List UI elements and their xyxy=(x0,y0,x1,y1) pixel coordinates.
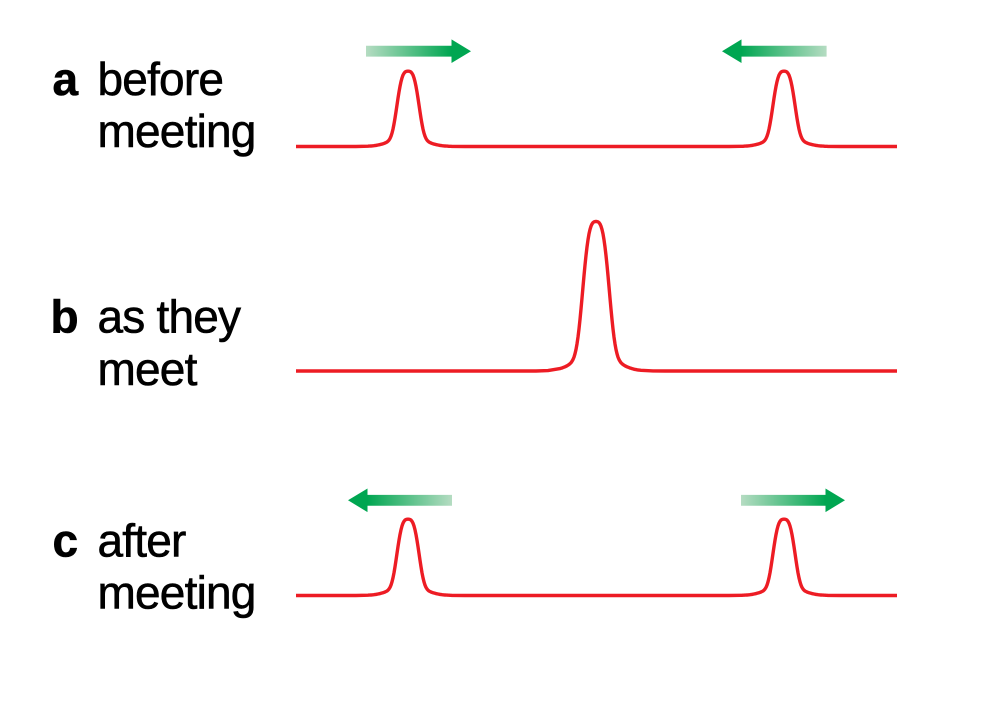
svg-text:c: c xyxy=(53,515,78,567)
svg-text:after: after xyxy=(98,515,187,567)
svg-text:meet: meet xyxy=(98,343,198,395)
svg-text:meeting: meeting xyxy=(98,105,256,157)
svg-text:meeting: meeting xyxy=(98,567,256,619)
svg-text:a: a xyxy=(53,53,79,105)
svg-text:b: b xyxy=(51,291,78,343)
svg-text:before: before xyxy=(98,53,224,105)
svg-text:as they: as they xyxy=(98,291,242,343)
